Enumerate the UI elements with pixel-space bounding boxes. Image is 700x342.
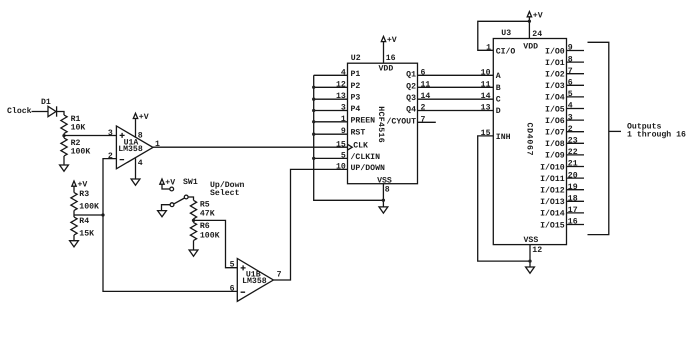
wire bracket tick xyxy=(609,130,621,132)
resistor R4 15K xyxy=(71,217,94,239)
wire U1A output to U2 CLK xyxy=(153,146,348,148)
svg-text:6: 6 xyxy=(230,284,235,293)
svg-text:VSS: VSS xyxy=(377,176,392,185)
wire +V to R3 xyxy=(73,186,75,192)
wire throw to ground xyxy=(162,205,171,211)
svg-text:HCF4516: HCF4516 xyxy=(376,106,385,143)
resistor R3 100K xyxy=(71,190,99,212)
svg-text:VDD: VDD xyxy=(523,42,538,51)
wire U2 pin 12 P2 stub xyxy=(314,86,348,88)
svg-text:47K: 47K xyxy=(200,209,215,218)
wire CI/O pin1 loop xyxy=(478,21,530,50)
svg-text:P2: P2 xyxy=(351,82,361,91)
svg-text:6: 6 xyxy=(568,79,573,88)
ground xyxy=(526,267,535,273)
svg-text:16: 16 xyxy=(386,54,396,63)
power +V SW1 xyxy=(160,178,175,187)
svg-text:4: 4 xyxy=(138,159,143,168)
wire I/O2 pin 7 stub xyxy=(567,73,585,75)
op-amp U1A LM358 xyxy=(116,126,153,169)
svg-text:19: 19 xyxy=(568,183,578,192)
svg-text:+V: +V xyxy=(387,36,397,45)
svg-text:100K: 100K xyxy=(79,203,99,212)
svg-text:10: 10 xyxy=(336,162,346,171)
wire R6 to ground xyxy=(193,241,195,251)
svg-text:R3: R3 xyxy=(79,190,89,199)
svg-text:3: 3 xyxy=(568,113,573,122)
wire I/O14 pin 17 stub xyxy=(567,212,585,214)
svg-text:CLK: CLK xyxy=(353,142,368,151)
svg-text:1 through 16: 1 through 16 xyxy=(627,131,686,140)
switch SW1 arm xyxy=(174,198,185,204)
svg-text:I/O2: I/O2 xyxy=(545,71,565,80)
svg-text:R5: R5 xyxy=(200,201,210,210)
wire R2 to ground xyxy=(63,156,65,165)
svg-text:22: 22 xyxy=(568,148,578,157)
svg-text:I/O5: I/O5 xyxy=(545,105,565,114)
svg-text:D: D xyxy=(496,107,501,116)
wire U1B output to U2 UP/DOWN xyxy=(273,169,347,280)
ground xyxy=(60,165,69,171)
svg-text:/CYOUT: /CYOUT xyxy=(387,117,417,126)
ground xyxy=(70,241,79,247)
ground xyxy=(379,207,388,213)
svg-text:7: 7 xyxy=(421,115,426,124)
ground xyxy=(189,250,198,256)
svg-text:11: 11 xyxy=(421,80,431,89)
wire I/O6 pin 3 stub xyxy=(567,119,585,121)
wire I/O11 pin 20 stub xyxy=(567,177,585,179)
wire VSS pin12 to ground xyxy=(529,245,531,267)
node bus junction xyxy=(312,98,315,101)
svg-text:4: 4 xyxy=(341,68,346,77)
svg-text:9: 9 xyxy=(568,44,573,53)
svg-text:15: 15 xyxy=(481,129,491,138)
svg-text:Q2: Q2 xyxy=(406,82,416,91)
ground xyxy=(158,211,167,217)
wire I/O1 pin 8 stub xyxy=(567,61,585,63)
svg-text:I/O10: I/O10 xyxy=(540,163,565,172)
wire U2 pin 4 P1 stub xyxy=(314,74,348,76)
wire I/O4 pin 5 stub xyxy=(567,96,585,98)
wire I/O12 pin 19 stub xyxy=(567,189,585,191)
svg-text:R2: R2 xyxy=(71,139,81,148)
svg-text:15: 15 xyxy=(336,140,346,149)
svg-text:23: 23 xyxy=(568,137,578,146)
svg-text:INH: INH xyxy=(496,133,511,142)
svg-text:I/O15: I/O15 xyxy=(540,221,565,230)
wire U2 pin 13 P3 stub xyxy=(314,98,348,100)
wire D1 to R1 xyxy=(57,112,64,116)
wire U2 pin 9 RST stub xyxy=(314,133,348,135)
node bus junction xyxy=(312,109,315,112)
svg-text:I/O12: I/O12 xyxy=(540,187,565,196)
wire I/O10 pin 21 stub xyxy=(567,166,585,168)
power +V U3 pin24 xyxy=(527,12,543,21)
svg-text:A: A xyxy=(496,72,501,81)
node junction R1/R2 xyxy=(63,134,65,139)
svg-text:P4: P4 xyxy=(351,105,361,114)
wire I/O0 pin 9 stub xyxy=(567,50,585,52)
svg-text:CD4067: CD4067 xyxy=(524,123,533,157)
switch SW1 throw contact (gnd) xyxy=(170,203,174,207)
svg-text:SW1: SW1 xyxy=(183,178,198,187)
wire I/O13 pin 18 stub xyxy=(567,200,585,202)
svg-text:I/O8: I/O8 xyxy=(545,140,565,149)
svg-text:P1: P1 xyxy=(351,70,361,79)
svg-text:12: 12 xyxy=(532,246,542,255)
svg-text:14: 14 xyxy=(481,92,491,101)
svg-text:I/O9: I/O9 xyxy=(545,152,565,161)
svg-text:CI/O: CI/O xyxy=(496,47,516,56)
svg-text:7: 7 xyxy=(568,67,573,76)
wire U2 Q3 to U3 C xyxy=(418,98,494,100)
ground xyxy=(131,179,140,185)
svg-text:U2: U2 xyxy=(351,54,361,63)
svg-text:I/O1: I/O1 xyxy=(545,59,565,68)
resistor R6 100K xyxy=(190,222,219,240)
node junction R5/R6 xyxy=(193,219,195,223)
svg-text:7: 7 xyxy=(277,271,282,280)
wire I/O15 pin 16 stub xyxy=(567,224,585,226)
resistor R2 100K xyxy=(61,138,90,157)
wire U2 pin 1 PREEN stub xyxy=(314,121,348,123)
node junction R3/R4 xyxy=(73,211,75,218)
svg-text:2: 2 xyxy=(108,152,113,161)
svg-text:6: 6 xyxy=(421,68,426,77)
node bus junction xyxy=(312,86,315,89)
wire junction to U1A pin3 xyxy=(64,135,116,137)
svg-text:I/O7: I/O7 xyxy=(545,129,565,138)
svg-text:D1: D1 xyxy=(41,98,51,107)
svg-text:+V: +V xyxy=(139,113,149,122)
wire R3/R4 junction to feedback rail xyxy=(74,214,103,216)
svg-text:1: 1 xyxy=(486,43,491,52)
wire U2 pin 5 /CLKIN stub xyxy=(314,157,348,159)
resistor R5 47K xyxy=(190,200,214,219)
wire U2 Q2 to U3 B xyxy=(418,86,494,88)
svg-text:12: 12 xyxy=(336,80,346,89)
wire junction to U1B pin5 xyxy=(194,220,238,267)
wire VSS pin8 to ground xyxy=(382,184,384,207)
wire ground bus left of U2 xyxy=(314,75,384,200)
svg-text:9: 9 xyxy=(341,127,346,136)
svg-text:2: 2 xyxy=(421,104,426,113)
power +V U2 pin16 xyxy=(381,36,397,45)
svg-text:3: 3 xyxy=(108,129,113,138)
svg-text:I/O6: I/O6 xyxy=(545,117,565,126)
svg-text:I/O13: I/O13 xyxy=(540,198,565,207)
wire +V to VDD pin24 xyxy=(528,17,530,39)
svg-text:15K: 15K xyxy=(79,230,94,239)
svg-text:20: 20 xyxy=(568,171,578,180)
svg-text:Q1: Q1 xyxy=(406,70,416,79)
svg-text:10: 10 xyxy=(481,68,491,77)
diode D1 xyxy=(41,98,57,117)
svg-text:13: 13 xyxy=(481,104,491,113)
svg-text:5: 5 xyxy=(568,90,573,99)
svg-text:2: 2 xyxy=(568,125,573,134)
svg-text:RST: RST xyxy=(351,129,366,138)
svg-text:VDD: VDD xyxy=(379,65,394,74)
node bus junction xyxy=(312,133,315,136)
svg-text:21: 21 xyxy=(568,160,578,169)
wire I/O8 pin 23 stub xyxy=(567,142,585,144)
wire I/O9 pin 22 stub xyxy=(567,154,585,156)
svg-text:+V: +V xyxy=(78,180,88,189)
svg-text:VSS: VSS xyxy=(524,236,539,245)
svg-text:11: 11 xyxy=(481,80,491,89)
wire I/O5 pin 4 stub xyxy=(567,108,585,110)
svg-text:Clock: Clock xyxy=(7,107,32,116)
wire +V to switch throw xyxy=(162,184,170,189)
svg-text:8: 8 xyxy=(138,131,143,140)
svg-text:I/O0: I/O0 xyxy=(545,47,565,56)
svg-text:U3: U3 xyxy=(501,29,511,38)
node bus junction xyxy=(312,120,315,123)
svg-text:10K: 10K xyxy=(71,124,86,133)
resistor R1 10K xyxy=(61,115,86,134)
wire +V to VDD pin16 xyxy=(383,42,385,64)
power +V U1A pin 8 xyxy=(133,113,148,122)
svg-text:Select: Select xyxy=(210,189,240,198)
svg-text:/CLKIN: /CLKIN xyxy=(351,153,381,162)
wire INH pin15 to ground rail xyxy=(478,136,530,261)
svg-text:14: 14 xyxy=(421,92,431,101)
wire /CYOUT pin7 stub xyxy=(418,121,436,123)
svg-text:13: 13 xyxy=(336,92,346,101)
wire I/O7 pin 2 stub xyxy=(567,131,585,133)
wire outputs bracket xyxy=(588,42,609,234)
svg-text:100K: 100K xyxy=(200,231,220,240)
wire U2 pin 3 P4 stub xyxy=(314,110,348,112)
svg-text:5: 5 xyxy=(341,151,346,160)
wire pin 4 to ground xyxy=(135,158,137,179)
IC U3 CD4067 multiplexer box xyxy=(493,39,566,245)
wire +V to pin 8 xyxy=(135,119,137,138)
op-amp U1B LM358 xyxy=(237,259,273,302)
wire U1A pin2 feedback rail xyxy=(103,159,237,292)
svg-text:B: B xyxy=(496,84,501,93)
wire U2 Q1 to U3 A xyxy=(418,74,494,76)
node junction +V / CI/O xyxy=(528,20,531,23)
svg-text:R4: R4 xyxy=(79,217,89,226)
svg-text:8: 8 xyxy=(385,186,390,195)
power +V R3 xyxy=(72,180,88,189)
svg-text:C: C xyxy=(496,96,501,105)
svg-text:3: 3 xyxy=(341,104,346,113)
wire common to R5 xyxy=(188,197,193,200)
wire Clock to D1 xyxy=(32,111,49,113)
svg-text:Q3: Q3 xyxy=(406,94,416,103)
svg-text:5: 5 xyxy=(230,261,235,270)
switch SW1 throw contact (+V) xyxy=(170,187,174,191)
IC U2 HCF4516 counter box xyxy=(348,63,418,184)
svg-text:18: 18 xyxy=(568,195,578,204)
svg-text:16: 16 xyxy=(568,218,578,227)
wire U2 Q4 to U3 D xyxy=(418,110,494,112)
switch SW1 common contact xyxy=(184,195,188,199)
svg-text:P3: P3 xyxy=(351,94,361,103)
svg-text:+V: +V xyxy=(533,12,543,21)
svg-text:17: 17 xyxy=(568,206,578,215)
svg-text:LM358: LM358 xyxy=(242,277,267,286)
svg-text:1: 1 xyxy=(341,115,346,124)
wire I/O3 pin 6 stub xyxy=(567,84,585,86)
svg-text:PREEN: PREEN xyxy=(351,116,376,125)
svg-text:UP/DOWN: UP/DOWN xyxy=(351,164,385,173)
svg-text:8: 8 xyxy=(568,55,573,64)
svg-text:I/O14: I/O14 xyxy=(540,210,565,219)
svg-text:R6: R6 xyxy=(200,222,210,231)
svg-text:100K: 100K xyxy=(71,148,91,157)
wire R4 to ground xyxy=(73,235,75,241)
svg-text:I/O4: I/O4 xyxy=(545,94,565,103)
svg-text:I/O11: I/O11 xyxy=(540,175,565,184)
svg-text:24: 24 xyxy=(532,30,542,39)
clock chevron xyxy=(348,144,353,150)
svg-text:4: 4 xyxy=(568,102,573,111)
svg-text:LM358: LM358 xyxy=(118,145,143,154)
svg-text:+V: +V xyxy=(165,178,175,187)
svg-text:I/O3: I/O3 xyxy=(545,82,565,91)
svg-text:Q4: Q4 xyxy=(406,106,416,115)
